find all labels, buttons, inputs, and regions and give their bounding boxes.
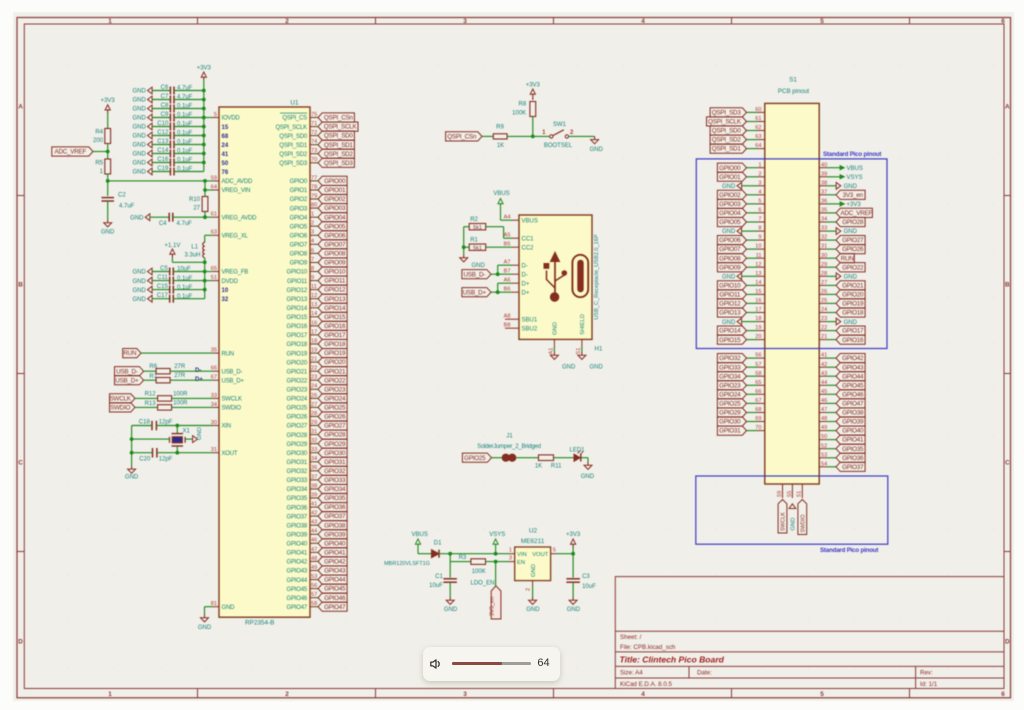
svg-text:GND: GND — [472, 263, 486, 269]
svg-text:GND: GND — [132, 116, 146, 122]
svg-text:42: 42 — [821, 362, 827, 368]
svg-text:CC2: CC2 — [522, 245, 535, 251]
svg-text:11: 11 — [311, 284, 317, 290]
svg-text:GPIO36: GPIO36 — [287, 505, 308, 511]
wire R11 to LED1 — [554, 457, 574, 459]
svg-text:GPIO00: GPIO00 — [719, 165, 741, 172]
global label USB_D+ — [115, 376, 144, 385]
svg-text:2: 2 — [285, 18, 289, 25]
svg-text:USB_D+: USB_D+ — [463, 289, 487, 296]
resistor R8 100K — [530, 102, 536, 117]
svg-text:C6: C6 — [161, 85, 169, 91]
power symbol VSYS — [495, 544, 497, 554]
svg-text:GPIO18: GPIO18 — [324, 341, 346, 348]
svg-text:GPIO24: GPIO24 — [287, 397, 308, 403]
svg-text:GND: GND — [222, 605, 236, 611]
inductor L1 3.3uH — [203, 242, 205, 246]
svg-text:QSPI_SD1: QSPI_SD1 — [712, 146, 742, 153]
svg-text:GPIO41: GPIO41 — [842, 437, 864, 444]
svg-text:C18: C18 — [139, 419, 151, 425]
svg-text:C4: C4 — [159, 221, 167, 227]
svg-text:GPIO31: GPIO31 — [287, 460, 308, 466]
S1 bottom debug pins 59 55 51 — [782, 484, 784, 498]
ground S1 pin 55 — [789, 504, 796, 509]
capacitor C3 10uF — [572, 554, 574, 578]
svg-text:QSPI_SD3: QSPI_SD3 — [279, 161, 308, 167]
svg-text:GPIO34: GPIO34 — [324, 486, 346, 493]
svg-text:2: 2 — [311, 221, 314, 227]
svg-text:GPIO0: GPIO0 — [290, 179, 308, 185]
svg-text:54: 54 — [821, 461, 827, 467]
svg-text:GND: GND — [132, 125, 146, 131]
svg-text:6: 6 — [311, 248, 314, 254]
resistor R9 1K — [482, 135, 493, 137]
svg-text:C1: C1 — [435, 574, 443, 580]
svg-text:D-: D- — [522, 272, 528, 278]
wire CC1 CC2 — [486, 226, 504, 228]
svg-text:BOOTSEL: BOOTSEL — [544, 143, 573, 149]
regulator U2 ME6211 body — [515, 547, 551, 581]
svg-text:GPIO39: GPIO39 — [842, 419, 864, 426]
svg-text:GPIO35: GPIO35 — [324, 495, 346, 502]
svg-text:GPIO13: GPIO13 — [719, 310, 741, 317]
svg-text:8: 8 — [311, 266, 314, 272]
global label GPIO25 — [462, 453, 491, 462]
resistor R4 200 — [105, 129, 111, 144]
svg-text:GPIO19: GPIO19 — [324, 350, 346, 357]
svg-text:GPIO32: GPIO32 — [287, 469, 308, 475]
svg-text:GPIO4: GPIO4 — [290, 215, 308, 221]
svg-text:RUN: RUN — [123, 350, 137, 357]
svg-text:GND: GND — [132, 270, 146, 276]
svg-text:28: 28 — [821, 271, 827, 277]
svg-text:50: 50 — [222, 161, 229, 167]
svg-text:6: 6 — [1001, 18, 1005, 25]
svg-text:VBUS: VBUS — [847, 166, 863, 172]
speaker icon — [430, 659, 442, 669]
svg-text:QSPI_CSn: QSPI_CSn — [324, 115, 354, 122]
global label RUN — [123, 349, 141, 358]
svg-text:GPIO25: GPIO25 — [464, 455, 486, 462]
svg-text:R4: R4 — [95, 130, 103, 136]
svg-text:21: 21 — [821, 334, 827, 340]
wire R3 to EN — [486, 561, 510, 563]
svg-text:GPIO09: GPIO09 — [719, 264, 741, 271]
svg-text:GPIO28: GPIO28 — [287, 433, 308, 439]
svg-text:10: 10 — [222, 288, 229, 294]
svg-text:46: 46 — [821, 398, 827, 404]
svg-text:GND: GND — [132, 98, 146, 104]
svg-text:1K: 1K — [535, 464, 542, 470]
svg-text:Id: 1/1: Id: 1/1 — [920, 681, 938, 688]
svg-text:GPIO45: GPIO45 — [324, 586, 346, 593]
svg-text:R8: R8 — [519, 102, 527, 108]
svg-text:GPIO35: GPIO35 — [842, 446, 864, 453]
svg-text:GPIO04: GPIO04 — [324, 214, 346, 221]
svg-text:EN: EN — [517, 560, 525, 566]
svg-text:GPIO22: GPIO22 — [324, 377, 346, 384]
svg-text:GND: GND — [531, 564, 537, 577]
svg-text:GPIO32: GPIO32 — [719, 355, 741, 362]
svg-text:4.7uF: 4.7uF — [177, 221, 193, 227]
svg-text:100R: 100R — [173, 400, 188, 406]
svg-text:U1: U1 — [290, 100, 299, 107]
svg-text:IOVDD: IOVDD — [222, 116, 241, 122]
svg-text:76: 76 — [222, 170, 229, 176]
svg-text:C9: C9 — [161, 112, 169, 118]
svg-text:5k1: 5k1 — [473, 246, 482, 252]
svg-text:GPIO46: GPIO46 — [324, 595, 346, 602]
power symbol VBUS ldo — [417, 544, 419, 554]
svg-text:12pF: 12pF — [159, 419, 173, 425]
svg-text:GPIO04: GPIO04 — [719, 210, 741, 217]
svg-text:D+: D+ — [522, 281, 530, 287]
resistor R10 27 — [202, 197, 208, 212]
svg-text:GPIO46: GPIO46 — [287, 596, 308, 602]
svg-text:GPIO30: GPIO30 — [324, 450, 346, 457]
svg-text:24: 24 — [821, 307, 827, 313]
svg-text:C14: C14 — [157, 148, 169, 154]
global label SWCLK — [110, 394, 136, 403]
solder jumper pads — [502, 454, 509, 461]
svg-text:3.3uH: 3.3uH — [184, 253, 200, 259]
svg-text:GPIO23: GPIO23 — [719, 382, 741, 389]
svg-text:GPIO18: GPIO18 — [287, 342, 308, 348]
svg-text:100R: 100R — [173, 391, 188, 397]
ground USB shield — [581, 347, 583, 352]
svg-text:QSPI_SD0: QSPI_SD0 — [279, 134, 308, 140]
USB H1 left pins — [512, 219, 519, 221]
svg-text:SBU2: SBU2 — [522, 326, 538, 332]
svg-text:27R: 27R — [174, 373, 186, 379]
svg-text:25: 25 — [821, 298, 827, 304]
svg-text:GPIO10: GPIO10 — [324, 269, 346, 276]
svg-text:GPIO35: GPIO35 — [287, 496, 308, 502]
svg-text:47: 47 — [821, 407, 827, 413]
svg-text:GPIO38: GPIO38 — [842, 410, 864, 417]
wire R9 to SW1 — [507, 135, 549, 137]
svg-text:GPIO33: GPIO33 — [719, 364, 741, 371]
svg-text:GND: GND — [844, 184, 858, 190]
svg-text:GPIO03: GPIO03 — [324, 205, 346, 212]
svg-text:GPIO12: GPIO12 — [287, 288, 308, 294]
U1 QSPI pins and global labels — [310, 117, 316, 119]
capacitor C18 12pF — [131, 426, 133, 466]
svg-text:GPIO20: GPIO20 — [842, 292, 864, 299]
svg-text:3V3_en: 3V3_en — [843, 192, 864, 199]
svg-text:59: 59 — [777, 491, 783, 497]
svg-text:ADC_AVDD: ADC_AVDD — [222, 179, 253, 185]
svg-text:R3: R3 — [459, 555, 467, 561]
svg-text:VREG_VIN: VREG_VIN — [222, 188, 251, 194]
svg-text:R1: R1 — [470, 238, 478, 244]
svg-text:GPIO05: GPIO05 — [324, 223, 346, 230]
svg-text:R12: R12 — [145, 391, 157, 397]
svg-text:GPIO17: GPIO17 — [287, 333, 308, 339]
svg-text:38: 38 — [821, 180, 827, 186]
svg-text:VREG_FB: VREG_FB — [222, 270, 249, 276]
svg-text:+3V3: +3V3 — [566, 532, 581, 538]
wire VOUT to +3V3 — [557, 553, 574, 555]
global label QSPI_CSn bootsel — [446, 132, 482, 141]
svg-text:GND: GND — [844, 320, 858, 326]
svg-text:SWCLK: SWCLK — [222, 397, 243, 403]
svg-text:8: 8 — [758, 226, 761, 232]
svg-text:GPIO45: GPIO45 — [842, 382, 864, 389]
svg-text:GPIO36: GPIO36 — [842, 455, 864, 462]
svg-text:QSPI_SCLK: QSPI_SCLK — [275, 125, 307, 131]
svg-text:GPIO38: GPIO38 — [287, 523, 308, 529]
svg-text:GPIO40: GPIO40 — [842, 428, 864, 435]
svg-text:MBR120VLSFT1G: MBR120VLSFT1G — [384, 561, 430, 567]
svg-text:C5: C5 — [160, 266, 168, 272]
svg-text:5: 5 — [553, 548, 556, 554]
svg-text:VBUS: VBUS — [522, 218, 538, 224]
ground crystal right — [185, 438, 193, 440]
svg-text:GPIO02: GPIO02 — [324, 196, 346, 203]
svg-text:GND: GND — [562, 365, 576, 371]
svg-text:GPIO18: GPIO18 — [842, 310, 864, 317]
svg-text:GPIO06: GPIO06 — [324, 232, 346, 239]
svg-text:55: 55 — [787, 491, 793, 497]
volume OSD overlay — [423, 647, 560, 680]
wire D1 to VIN — [439, 553, 509, 555]
svg-text:GPIO47: GPIO47 — [842, 401, 864, 408]
svg-text:B: B — [1005, 282, 1010, 289]
svg-text:U2: U2 — [529, 528, 538, 535]
svg-text:GPIO45: GPIO45 — [287, 587, 308, 593]
svg-text:GPIO19: GPIO19 — [287, 351, 308, 357]
svg-text:QSPI_CS: QSPI_CS — [282, 116, 307, 122]
svg-text:GPIO44: GPIO44 — [287, 578, 308, 584]
svg-text:SW1: SW1 — [553, 122, 567, 128]
resistor R12 100R — [135, 397, 158, 399]
svg-text:GPIO27: GPIO27 — [287, 424, 308, 430]
svg-text:VBUS: VBUS — [493, 191, 509, 197]
svg-text:GPIO08: GPIO08 — [324, 251, 346, 258]
wire C4 to VREG_AVDD pin 61 — [173, 216, 213, 218]
svg-text:4: 4 — [758, 189, 761, 195]
svg-text:GND: GND — [590, 365, 604, 371]
svg-text:GND: GND — [526, 607, 540, 613]
wire GPIO25 to jumper — [492, 457, 503, 459]
svg-text:GPIO42: GPIO42 — [324, 559, 346, 566]
power symbol +3V3 cap bank — [203, 77, 205, 81]
global label SWDIO — [110, 403, 136, 412]
svg-text:30: 30 — [821, 253, 827, 259]
svg-text:45: 45 — [821, 389, 827, 395]
global label ADC_VREF — [52, 147, 93, 156]
svg-text:R9: R9 — [496, 125, 504, 131]
svg-text:GPIO15: GPIO15 — [324, 314, 346, 321]
svg-text:32: 32 — [222, 297, 229, 303]
global label USB_D+ usb — [462, 288, 491, 297]
svg-text:GPIO20: GPIO20 — [324, 359, 346, 366]
svg-text:GND: GND — [444, 607, 458, 613]
svg-text:23: 23 — [821, 316, 827, 322]
ground USB A1 — [553, 347, 555, 352]
svg-text:3: 3 — [758, 180, 761, 186]
svg-text:GPIO20: GPIO20 — [287, 360, 308, 366]
wire R8 to junction — [532, 117, 534, 137]
S1 pico pins 1-20 left — [758, 167, 765, 169]
svg-text:SWDIO: SWDIO — [110, 405, 130, 412]
svg-text:ADC_VREF: ADC_VREF — [55, 149, 87, 156]
svg-text:41: 41 — [821, 353, 827, 359]
svg-text:GPIO15: GPIO15 — [719, 337, 741, 344]
svg-text:GPIO21: GPIO21 — [842, 283, 864, 290]
svg-text:QSPI_SD2: QSPI_SD2 — [279, 152, 308, 158]
svg-text:GPIO37: GPIO37 — [324, 513, 346, 520]
svg-text:Rev:: Rev: — [920, 670, 933, 677]
svg-text:A: A — [1005, 104, 1010, 111]
svg-text:USB_D-: USB_D- — [464, 271, 486, 278]
svg-text:S1: S1 — [576, 348, 582, 355]
svg-text:68: 68 — [222, 134, 229, 140]
svg-text:KiCad E.D.A. 8.0.5: KiCad E.D.A. 8.0.5 — [620, 681, 672, 688]
svg-text:GPIO40: GPIO40 — [324, 540, 346, 547]
crystal X1 — [176, 426, 178, 434]
svg-text:22: 22 — [821, 325, 827, 331]
svg-text:GPIO23: GPIO23 — [287, 388, 308, 394]
svg-text:GND: GND — [553, 322, 559, 335]
svg-text:File: CPB.kicad_sch: File: CPB.kicad_sch — [620, 644, 676, 651]
svg-text:1K: 1K — [497, 143, 504, 149]
S1 pico pins 40-21 right — [819, 167, 826, 169]
svg-text:GPIO25: GPIO25 — [324, 405, 346, 412]
svg-text:C8: C8 — [161, 103, 169, 109]
resistor R2 5k1 — [469, 224, 486, 230]
svg-text:GPIO25: GPIO25 — [287, 406, 308, 412]
svg-text:R5: R5 — [95, 161, 103, 167]
svg-text:GND: GND — [132, 297, 146, 303]
svg-text:A: A — [18, 104, 23, 111]
S1 extra GPIO pins right lower — [819, 357, 826, 359]
svg-text:C11: C11 — [157, 275, 168, 281]
svg-text:GPIO16: GPIO16 — [842, 337, 864, 344]
capacitor C20 12pF — [152, 448, 154, 458]
svg-text:4: 4 — [641, 18, 645, 25]
svg-text:GPIO13: GPIO13 — [287, 297, 308, 303]
svg-text:GND: GND — [198, 625, 212, 631]
global label USB_D- usb — [462, 270, 491, 279]
svg-text:1: 1 — [311, 212, 314, 218]
svg-text:GPIO01: GPIO01 — [324, 187, 346, 194]
power symbol +3V3 ADC — [107, 109, 109, 113]
svg-text:D1: D1 — [434, 541, 442, 547]
svg-text:GPIO27: GPIO27 — [324, 423, 346, 430]
ground C1 — [449, 582, 451, 597]
svg-text:100K: 100K — [472, 569, 486, 575]
svg-text:D+: D+ — [522, 290, 530, 296]
svg-text:GPIO11: GPIO11 — [287, 279, 308, 285]
IC U1 RP2354-B body — [219, 107, 310, 617]
svg-text:GND: GND — [197, 427, 203, 440]
svg-text:GPIO38: GPIO38 — [324, 522, 346, 529]
hierarchical label 3V3_en — [495, 562, 497, 586]
svg-text:C10: C10 — [157, 121, 169, 127]
capacitor C1 10uF — [449, 562, 451, 578]
svg-text:Standard Pico pinout: Standard Pico pinout — [820, 547, 878, 554]
svg-text:37: 37 — [821, 189, 827, 195]
svg-text:SolderJumper_2_Bridged: SolderJumper_2_Bridged — [477, 444, 541, 450]
title block — [615, 577, 1004, 689]
svg-text:VOUT: VOUT — [532, 552, 549, 558]
svg-text:QSPI_SCLK: QSPI_SCLK — [708, 119, 742, 126]
svg-text:GPIO41: GPIO41 — [324, 550, 346, 557]
svg-text:C2: C2 — [118, 193, 126, 199]
svg-text:3: 3 — [463, 691, 467, 698]
svg-text:C: C — [1005, 460, 1010, 467]
wire USB_D+ to pins — [491, 291, 512, 293]
svg-text:GPIO14: GPIO14 — [287, 306, 308, 312]
ground C2 — [107, 201, 109, 220]
svg-text:GPIO29: GPIO29 — [719, 410, 741, 417]
svg-text:GPIO42: GPIO42 — [842, 355, 864, 362]
svg-text:GPIO34: GPIO34 — [287, 487, 308, 493]
USB connector H1 body — [519, 215, 592, 339]
svg-text:GPIO6: GPIO6 — [290, 234, 308, 240]
svg-text:+1.1V: +1.1V — [164, 243, 180, 249]
svg-text:GPIO5: GPIO5 — [290, 224, 308, 230]
svg-text:GPIO42: GPIO42 — [287, 560, 308, 566]
svg-text:C: C — [18, 460, 23, 467]
USB logo — [544, 252, 567, 301]
svg-text:QSPI_SCLK: QSPI_SCLK — [324, 124, 358, 131]
ground bootsel — [594, 136, 596, 139]
svg-text:1: 1 — [108, 691, 112, 698]
resistor R11 1K — [539, 455, 554, 461]
svg-text:GND: GND — [844, 275, 858, 281]
global label SWDIO bottom — [798, 500, 807, 535]
svg-text:GPIO28: GPIO28 — [842, 219, 864, 226]
svg-text:GND: GND — [125, 475, 139, 481]
svg-text:GPIO08: GPIO08 — [719, 255, 741, 262]
svg-text:GPIO19: GPIO19 — [842, 301, 864, 308]
svg-text:GND: GND — [581, 474, 595, 480]
svg-text:B: B — [18, 282, 23, 289]
ground crystal bus — [131, 466, 133, 469]
svg-text:GPIO27: GPIO27 — [842, 237, 864, 244]
svg-text:USB_D+: USB_D+ — [115, 377, 139, 384]
wire L1 to VREG_FB — [171, 258, 173, 263]
svg-text:9: 9 — [758, 235, 761, 241]
svg-text:GPIO22: GPIO22 — [287, 378, 308, 384]
USB SBU stubs — [505, 318, 512, 320]
svg-text:GPIO12: GPIO12 — [719, 301, 741, 308]
svg-text:A1: A1 — [549, 348, 555, 355]
svg-text:10uF: 10uF — [429, 583, 443, 589]
wire IOVDD pin 5 to bank — [204, 117, 213, 119]
svg-text:GPIO10: GPIO10 — [287, 270, 308, 276]
svg-text:10uF: 10uF — [582, 584, 596, 590]
svg-text:40: 40 — [821, 162, 827, 168]
svg-text:GPIO30: GPIO30 — [287, 451, 308, 457]
svg-text:4: 4 — [311, 239, 314, 245]
svg-text:200: 200 — [93, 138, 104, 144]
svg-text:QSPI_SD0: QSPI_SD0 — [712, 128, 742, 135]
svg-text:GPIO03: GPIO03 — [719, 201, 741, 208]
svg-text:27: 27 — [193, 206, 200, 212]
svg-text:50: 50 — [821, 434, 827, 440]
svg-text:GPIO43: GPIO43 — [287, 569, 308, 575]
svg-text:QSPI_CSn: QSPI_CSn — [447, 134, 477, 141]
svg-text:GPIO12: GPIO12 — [324, 287, 346, 294]
wire VREG_VIN bus — [204, 181, 206, 196]
svg-text:GPIO9: GPIO9 — [290, 261, 308, 267]
svg-text:R11: R11 — [551, 464, 562, 470]
svg-text:H1: H1 — [595, 346, 603, 353]
